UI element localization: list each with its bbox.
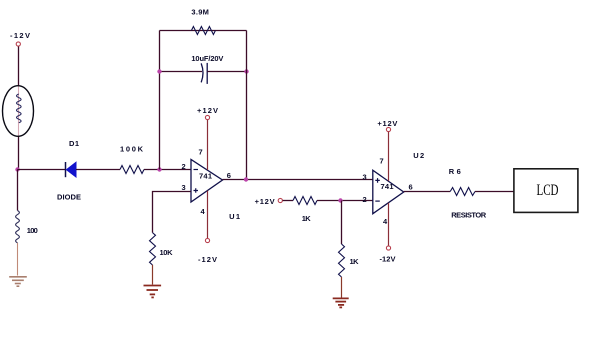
wire node A to diode D1 [18, 169, 66, 171]
svg-text:2: 2 [182, 162, 186, 171]
ground under 100 [9, 277, 27, 286]
svg-text:741: 741 [199, 172, 212, 181]
terminal circle +12V U1 [205, 115, 209, 119]
svg-text:2: 2 [363, 195, 367, 204]
junction dot cap-right [244, 69, 248, 73]
resistor 1K vertical zigzag [339, 244, 345, 277]
op-amp U2 minus sign [375, 200, 380, 202]
svg-text:6: 6 [227, 171, 231, 180]
svg-text:10K: 10K [160, 248, 174, 257]
photoresistor LDR ellipse [3, 86, 34, 137]
svg-text:+12V: +12V [377, 119, 397, 128]
terminal circle +12V U2 [386, 127, 390, 131]
wire feedback left vertical [159, 31, 161, 170]
terminal circle -12V U1 [205, 238, 209, 242]
wire 1K vertical to ground [341, 277, 343, 298]
svg-text:-12V: -12V [380, 255, 396, 264]
resistor R6 zigzag [450, 188, 475, 196]
op-amp U2 plus sign [375, 178, 380, 183]
wire feedback top [160, 30, 247, 32]
svg-text:-12V: -12V [10, 31, 30, 40]
junction dot node C [338, 198, 342, 202]
svg-text:LCD: LCD [537, 182, 559, 199]
wire below node A down to 100 resistor [17, 170, 19, 211]
terminal circle -12V U2 [386, 246, 390, 250]
op-amp U1 minus sign [194, 169, 199, 171]
diode D1 triangle [67, 162, 77, 177]
svg-text:-12V: -12V [198, 255, 217, 264]
svg-text:7: 7 [380, 157, 384, 166]
wire 100 to ground [17, 243, 19, 276]
wire capacitor row left [160, 71, 203, 73]
photoresistor zigzag element [17, 94, 22, 123]
svg-text:1K: 1K [350, 257, 360, 266]
wire R6 to LCD [475, 191, 514, 193]
svg-text:RESISTOR: RESISTOR [451, 211, 487, 220]
resistor 1K horizontal zigzag [293, 197, 317, 205]
svg-text:741: 741 [381, 182, 394, 191]
ground under 1K [333, 298, 349, 307]
resistor 10K zigzag [150, 233, 156, 265]
wire U1 pin7 power stub [207, 120, 209, 170]
wire U2 output to R6 [404, 191, 451, 193]
wire U2 pin4 power stub [388, 203, 390, 246]
wire terminal to 1K [283, 200, 293, 202]
wire U1 pin4 power stub [207, 191, 209, 238]
svg-text:+12V: +12V [197, 106, 218, 115]
svg-text:1K: 1K [302, 214, 312, 223]
svg-text:3.9M: 3.9M [191, 8, 209, 17]
capacitor C straight plate [206, 63, 208, 84]
svg-text:10uF/20V: 10uF/20V [191, 54, 223, 63]
svg-text:7: 7 [199, 148, 203, 157]
resistor 100 zigzag [16, 211, 20, 243]
ground under 10K [144, 286, 162, 298]
wire 10K to ground [152, 265, 154, 285]
resistor 3.9M zigzag [191, 27, 215, 35]
wire U1 output to U2 pin3 [223, 179, 373, 181]
op-amp U2 triangle [373, 170, 404, 214]
wire capacitor row right [207, 71, 246, 73]
wire feedback right vertical [246, 31, 248, 180]
diode D1 cathode bar [65, 162, 67, 177]
wire faint through LDR [18, 86, 20, 136]
svg-text:DIODE: DIODE [57, 193, 81, 202]
svg-text:100K: 100K [120, 145, 144, 154]
svg-text:D1: D1 [69, 139, 79, 148]
svg-text:3: 3 [182, 183, 186, 192]
wire left rail vertical lower [18, 136, 20, 170]
wire U1 pin3 left and down [153, 192, 192, 233]
op-amp U1 plus sign [194, 188, 199, 193]
wire diode to 100K [76, 169, 120, 171]
junction dot output U1 [244, 177, 248, 181]
wire node C down to 1K vertical [341, 201, 343, 245]
node A junction dot [15, 167, 19, 171]
terminal circle +12V mid [278, 198, 282, 202]
wire 1K to U2 pin2 [317, 200, 373, 202]
capacitor C curved plate [201, 63, 203, 82]
wire 100K to node B [144, 169, 191, 171]
wire U2 pin7 power stub [388, 132, 390, 181]
terminal circle -12V left [16, 42, 20, 46]
svg-text:6: 6 [409, 183, 413, 192]
junction dot cap-left [157, 69, 161, 73]
resistor 100K zigzag [120, 166, 144, 174]
svg-text:+12V: +12V [255, 197, 275, 206]
svg-text:3: 3 [363, 173, 367, 182]
svg-text:100: 100 [27, 226, 38, 235]
wire left rail vertical upper [18, 47, 20, 87]
node B junction dot [157, 167, 161, 171]
LCD box [514, 169, 578, 213]
op-amp U1 triangle [191, 160, 223, 203]
